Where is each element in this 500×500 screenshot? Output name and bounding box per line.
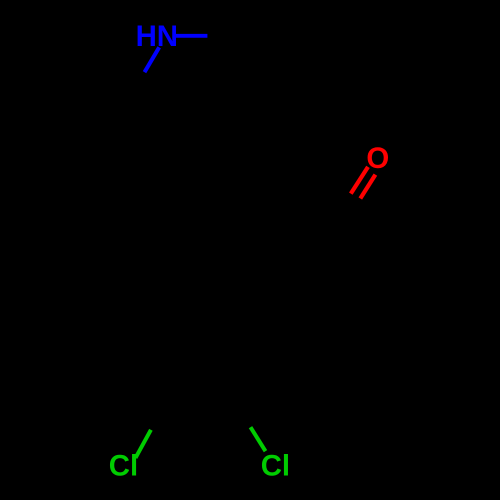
svg-text:Cl: Cl — [261, 450, 290, 483]
double bond C=O line 1 — [351, 167, 368, 194]
bond N-CH3 — [176, 34, 208, 38]
bond N-C8 — [145, 47, 160, 72]
svg-text:O: O — [366, 142, 389, 175]
svg-text:Cl: Cl — [109, 450, 138, 483]
bond C3-Cl1 — [136, 430, 151, 458]
bond C4-Cl2 — [251, 427, 266, 451]
double bond C=O line 2 — [360, 175, 375, 199]
